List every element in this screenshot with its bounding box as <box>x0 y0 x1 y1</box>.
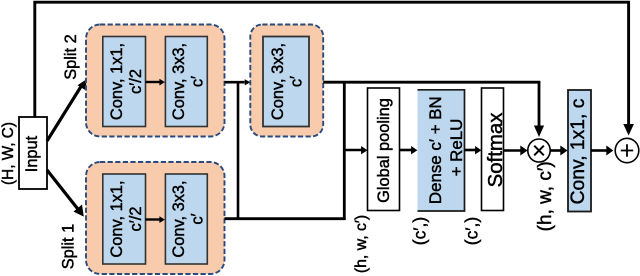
svg-text:Conv, 3x3,: Conv, 3x3, <box>170 180 188 257</box>
svg-text:Dense c′ + BN: Dense c′ + BN <box>426 96 445 204</box>
wire vertical merge to main row <box>343 82 346 220</box>
multiply node <box>528 139 550 162</box>
svg-text:c′/2: c′/2 <box>127 69 145 94</box>
arrow conv to add <box>591 146 613 156</box>
arrow dense to softmax <box>465 146 482 154</box>
svg-text:Conv, 1x1,: Conv, 1x1, <box>108 180 126 257</box>
svg-text:Split 2: Split 2 <box>62 34 80 80</box>
arrow pooling to dense <box>400 146 418 154</box>
arrow softmax to multiply <box>504 146 528 156</box>
wire vertical junction split2-split1 <box>237 82 240 219</box>
svg-text:Split 1: Split 1 <box>60 224 78 270</box>
dense BN ReLU box <box>418 89 467 211</box>
svg-text:+ ReLU: + ReLU <box>447 119 466 177</box>
split2 group box <box>86 25 225 137</box>
wire skip-connection top (input to add) <box>33 1 634 136</box>
arrow into middle conv3x3 <box>245 79 251 85</box>
split1 group box <box>86 162 225 274</box>
svg-text:Conv, 3x3,: Conv, 3x3, <box>269 43 287 120</box>
arrow to global pooling <box>344 146 367 154</box>
wire split1 output bottom <box>225 217 346 220</box>
input box <box>19 117 47 189</box>
arrow split2 conv1x1 to conv3x3 <box>146 79 165 86</box>
svg-text:(h, w, c′): (h, w, c′) <box>535 161 556 231</box>
svg-text:(c′,): (c′,) <box>410 217 430 245</box>
svg-text:Conv, 1x1, c: Conv, 1x1, c <box>568 98 589 204</box>
svg-text:c′: c′ <box>188 76 206 87</box>
svg-text:c′: c′ <box>188 213 206 224</box>
svg-text:c′: c′ <box>288 76 306 87</box>
arrow input to split2 <box>47 80 87 141</box>
arrow multiply to conv <box>550 146 567 156</box>
middle conv group box <box>250 25 323 137</box>
add node <box>615 138 639 162</box>
svg-text:Conv, 3x3,: Conv, 3x3, <box>170 43 188 120</box>
svg-text:Input: Input <box>23 135 41 172</box>
split2 conv 1x1 box <box>103 37 146 127</box>
wire down into multiply <box>534 82 544 137</box>
arrow split1 conv1x1 to conv3x3 <box>146 216 165 223</box>
arrow input to split1 <box>47 170 84 217</box>
wire conv output to multiply <box>323 81 540 84</box>
split1 conv 1x1 box <box>103 174 146 264</box>
split2 conv 3x3 box <box>165 37 207 127</box>
split1 conv 3x3 box <box>165 174 207 264</box>
middle conv 3x3 box <box>263 37 309 127</box>
svg-text:Conv, 1x1,: Conv, 1x1, <box>108 43 126 120</box>
svg-text:Global pooling: Global pooling <box>375 98 393 203</box>
svg-text:(c′,): (c′,) <box>462 217 482 245</box>
svg-text:(H, W, C): (H, W, C) <box>0 122 17 185</box>
svg-text:(h, w, c′): (h, w, c′) <box>353 215 370 273</box>
softmax box <box>482 88 508 211</box>
global pooling box <box>368 88 400 211</box>
svg-text:c′/2: c′/2 <box>127 207 145 232</box>
wire split2 output <box>225 81 245 84</box>
conv 1x1 c box <box>568 90 591 212</box>
